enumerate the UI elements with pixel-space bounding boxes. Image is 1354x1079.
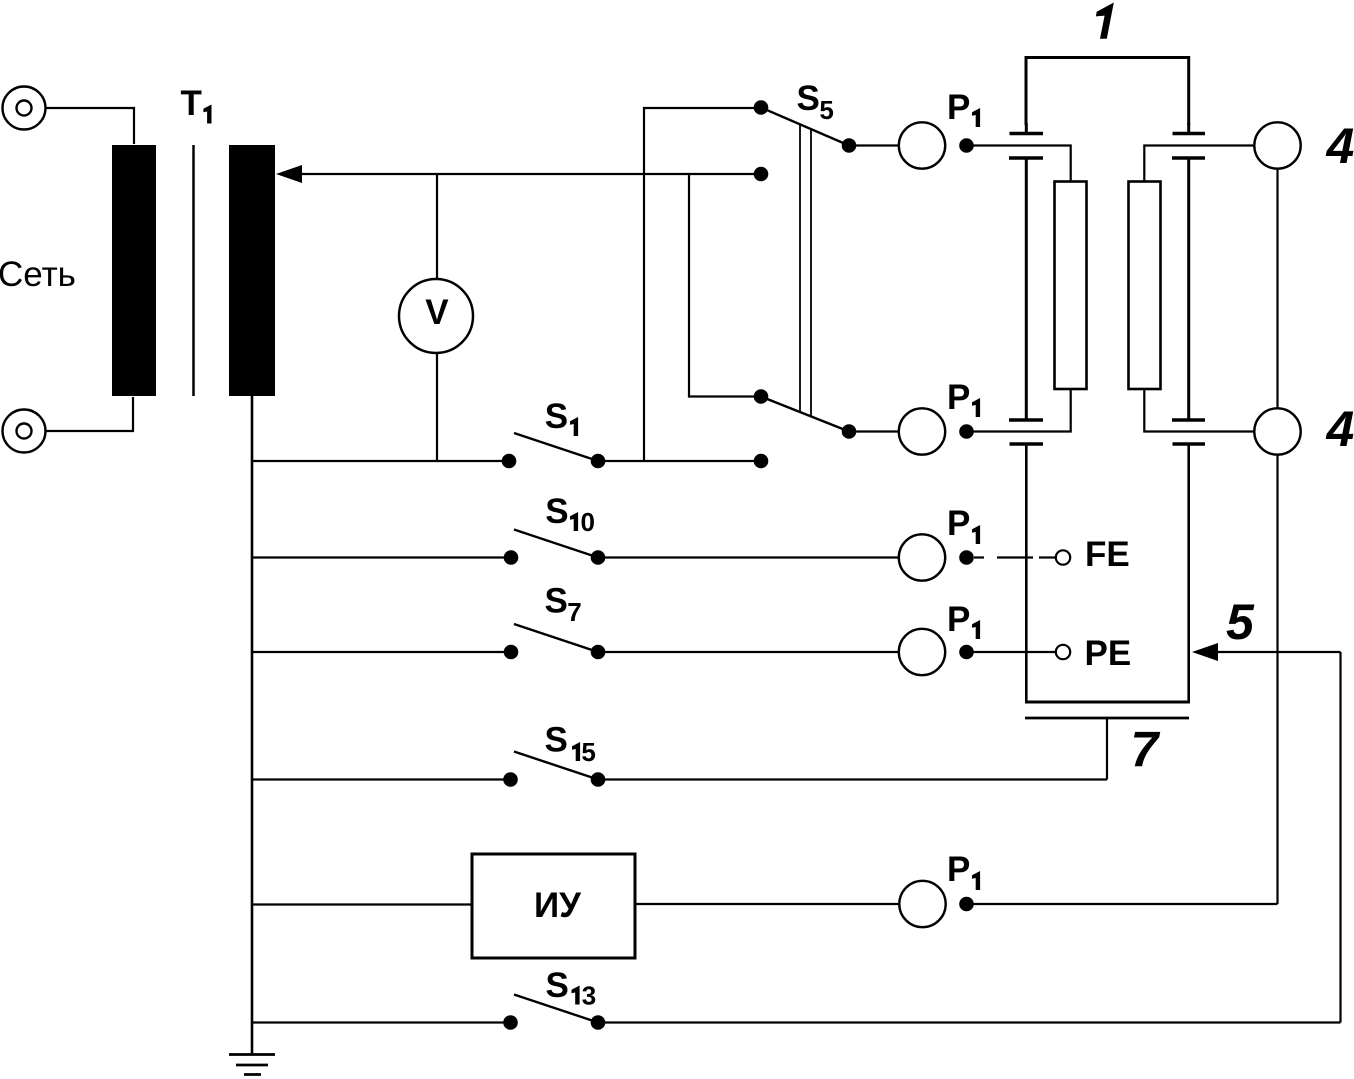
- svg-text:S: S: [545, 582, 568, 621]
- wire S13 to outer right rail: [598, 1021, 1341, 1023]
- arrow into transformer secondary (regulation tap): [276, 165, 302, 183]
- lamp right side lead: [1187, 160, 1190, 419]
- S5 gang link line 1: [799, 125, 801, 413]
- lamp electrode top-left: inner plate: [1009, 156, 1043, 159]
- switch S15: [252, 721, 1107, 787]
- lamp body bottom: [1025, 701, 1190, 704]
- node dot S13 left: [503, 1015, 518, 1030]
- switch S10: [252, 492, 898, 565]
- wire S10 to P1: [598, 556, 898, 558]
- S1 blade: [514, 433, 598, 461]
- svg-text:FE: FE: [1085, 535, 1130, 574]
- S5 top blade: [761, 108, 849, 146]
- wire from terminal X1 to transformer primary top: [46, 108, 135, 144]
- S15 blade: [514, 752, 598, 780]
- node dot S13 right: [591, 1015, 606, 1030]
- node dot S5 upper-mid (arrow row): [754, 167, 769, 182]
- node dot P1 top row: [959, 138, 974, 153]
- svg-text:P: P: [947, 378, 970, 417]
- lamp filament resistor right: [1129, 182, 1161, 390]
- lamp body left wall: [1025, 446, 1028, 704]
- svg-text:S: S: [545, 721, 568, 760]
- node dot S5 bottom blade end: [842, 424, 857, 439]
- lamp electrode top-right: outer cap plate: [1173, 132, 1206, 135]
- S7 blade: [514, 624, 598, 652]
- node dot S5 lower-left: [754, 389, 769, 404]
- wire between pin circles 4: [1276, 170, 1278, 408]
- svg-text:S: S: [545, 397, 568, 436]
- wire from arrow to node S5-b: [300, 173, 761, 175]
- ammeter P1 (ИУ row): [899, 881, 945, 927]
- wire S5 bottom to P1: [849, 430, 898, 432]
- label 1: [1096, 3, 1114, 39]
- wire from bottom circle 4 down to P1 output row: [1276, 456, 1278, 905]
- wire left rail to S1: [252, 460, 509, 462]
- dashed wire to FE terminal: [974, 556, 1055, 558]
- ammeter P1 (FE row): [899, 534, 945, 580]
- lamp electrode top-left: outer cap plate: [1010, 132, 1044, 135]
- lamp electrode top-right: inner plate: [1172, 156, 1205, 159]
- wire node column x643 (S5 top feed): [644, 108, 761, 461]
- wire node column x689 (S5 bottom feed): [689, 174, 761, 397]
- wire P1 to lamp electrode / resistor lead (top): [967, 146, 1071, 182]
- lamp electrode top-right: bracket stem: [1187, 123, 1190, 132]
- svg-text:P: P: [947, 850, 970, 889]
- lamp electrode top-left: bracket stem: [1025, 123, 1028, 132]
- svg-text:5: 5: [819, 95, 833, 125]
- wire left rail to S13: [252, 1021, 511, 1023]
- reflector plate 7: [1025, 717, 1189, 720]
- node dot S1 right: [591, 454, 606, 469]
- wire left rail to S10: [252, 556, 511, 558]
- lamp electrode bottom-right: outer cap plate: [1173, 442, 1206, 445]
- node dot S15 right: [591, 772, 606, 787]
- switch S7: [252, 582, 898, 660]
- wire left rail to S7: [252, 651, 511, 653]
- node dot P1 PE row: [959, 645, 974, 660]
- lamp filament resistor left: [1055, 182, 1087, 390]
- node dot P1 bottom row: [959, 424, 974, 439]
- svg-text:3: 3: [582, 981, 596, 1011]
- node dot S15 left: [503, 772, 518, 787]
- svg-text:T: T: [181, 84, 202, 123]
- svg-text:5: 5: [581, 737, 595, 767]
- terminal X2 (bottom mains input): [3, 410, 46, 453]
- svg-text:7: 7: [567, 597, 581, 627]
- node dot P1 FE row: [959, 550, 974, 565]
- lamp electrode bottom-left: outer cap plate: [1010, 442, 1044, 445]
- svg-text:5: 5: [1226, 594, 1255, 650]
- svg-text:S: S: [545, 492, 568, 531]
- S13 blade: [514, 995, 598, 1023]
- svg-text:S: S: [797, 79, 820, 118]
- node dot S7 left: [504, 645, 519, 660]
- node dot S5 bottom (S1 row end): [754, 454, 769, 469]
- wire from plate 7 to S15 row: [1106, 718, 1108, 780]
- PE terminal circle: [1056, 645, 1070, 659]
- transformer T1 primary winding bar: [112, 145, 156, 396]
- lamp pin holder circle 4 (bottom): [1254, 408, 1300, 454]
- wire to PE terminal: [973, 651, 1055, 653]
- switch S1: [252, 397, 761, 468]
- svg-text:P: P: [947, 88, 970, 127]
- node dot S1 left: [502, 454, 517, 469]
- svg-text:7: 7: [1131, 722, 1161, 778]
- switch S13: [252, 966, 1341, 1030]
- wire top-right electrode to lamp pin circle 4: [1144, 146, 1253, 182]
- transformer T1 core: [192, 145, 195, 396]
- svg-text:Сеть: Сеть: [0, 255, 76, 294]
- ammeter P1 (top lamp row): [899, 122, 945, 168]
- voltmeter V: [399, 279, 473, 353]
- svg-text:4: 4: [1326, 118, 1354, 174]
- lamp body right wall: [1187, 446, 1190, 704]
- wire S7 to P1: [598, 651, 898, 653]
- node dot S7 right: [591, 645, 606, 660]
- svg-text:ИУ: ИУ: [534, 886, 582, 925]
- lamp electrode bottom-left: inner plate: [1009, 418, 1043, 421]
- wire voltmeter bottom to S1 row: [436, 353, 438, 462]
- node dot S10 right: [591, 550, 606, 565]
- wire ИУ box to P1: [635, 903, 899, 905]
- lamp electrode bottom-right: inner plate: [1172, 418, 1205, 421]
- ammeter P1 (bottom lamp row): [899, 408, 945, 454]
- S5 gang link line 2: [810, 129, 812, 417]
- lamp left side lead (top electrode to bottom electrode): [1025, 160, 1028, 419]
- svg-text:P: P: [947, 600, 970, 639]
- wire voltmeter top: [436, 174, 438, 280]
- svg-text:P: P: [947, 504, 970, 543]
- svg-text:S: S: [546, 966, 569, 1005]
- lamp device 1: top mounting bracket: [1026, 58, 1189, 126]
- wire from terminal X2 to transformer primary bottom: [46, 397, 134, 431]
- node dot S10 left: [504, 550, 519, 565]
- wire bottom-right electrode to lamp pin circle 4: [1144, 389, 1253, 432]
- arrow 5 into lamp right wall: [1192, 643, 1218, 661]
- wire S5 top to P1: [849, 144, 898, 146]
- svg-text:PE: PE: [1085, 634, 1132, 673]
- node dot S5 top blade end: [842, 138, 857, 153]
- main left rail from transformer secondary to ground: [251, 396, 254, 1054]
- svg-text:4: 4: [1326, 401, 1354, 457]
- svg-text:0: 0: [581, 507, 595, 537]
- ammeter P1 (PE row): [899, 629, 945, 675]
- node dot S5 top-left: [754, 100, 769, 115]
- S5 bottom blade: [761, 397, 849, 432]
- wire arrow 5 to right rail: [1214, 651, 1341, 653]
- wire P1 to right rail (up to circle 4): [973, 903, 1278, 905]
- wire left rail to ИУ box: [252, 903, 472, 905]
- wire S1 to node x761: [598, 460, 761, 462]
- terminal X1 (top mains input): [3, 87, 46, 130]
- wire S15 to plate 7 lead: [598, 778, 1107, 780]
- transformer T1 secondary winding bar: [229, 145, 275, 396]
- measuring unit ИУ box: [472, 854, 635, 958]
- svg-text:V: V: [425, 293, 449, 332]
- S10 blade: [514, 530, 598, 558]
- wire left rail to S15: [252, 778, 511, 780]
- FE terminal circle: [1056, 550, 1070, 564]
- ground: [229, 1055, 275, 1075]
- switch S5 (ganged pair): [761, 108, 849, 432]
- wire P1 to lamp electrode / resistor lead (bottom): [967, 389, 1071, 432]
- outer right rail from S13 up to arrow 5: [1339, 652, 1341, 1023]
- lamp pin holder circle 4 (top): [1254, 122, 1300, 168]
- node dot P1 ИУ row: [959, 897, 974, 912]
